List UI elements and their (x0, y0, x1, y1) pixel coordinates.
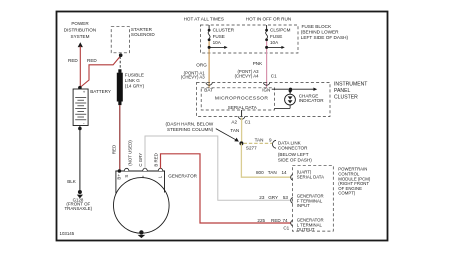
svg-text:INDICATOR: INDICATOR (299, 98, 325, 103)
svg-text:10A: 10A (213, 40, 222, 45)
lamp charge indicator (285, 94, 296, 105)
svg-text:(DASH HARN, BELOW: (DASH HARN, BELOW (166, 122, 214, 127)
fuse block dashed box (200, 25, 298, 53)
battery (78, 86, 82, 90)
svg-text:C1: C1 (283, 226, 289, 231)
svg-text:BATTERY: BATTERY (90, 89, 111, 94)
svg-text:COMPT): COMPT) (338, 191, 356, 196)
generator (114, 168, 170, 233)
svg-text:14: 14 (281, 170, 287, 175)
wire ORG fuse to cluster (208, 53, 210, 88)
PCM connectors (291, 174, 293, 180)
svg-text:LINK G: LINK G (125, 78, 140, 83)
svg-text:PNK: PNK (253, 61, 263, 66)
svg-text:CLUSTER: CLUSTER (213, 28, 235, 33)
wire RED fusible link to generator B+ (119, 105, 121, 171)
svg-text:C GRY: C GRY (138, 153, 143, 167)
svg-text:OUTPUT: OUTPUT (297, 227, 315, 232)
svg-text:FUSE: FUSE (213, 34, 225, 39)
svg-text:(CHEVY) A4: (CHEVY) A4 (235, 74, 259, 79)
serial data wire to A2 connector (241, 110, 243, 117)
svg-text:+: + (83, 90, 86, 95)
PCM dashed box (292, 166, 333, 231)
svg-text:(BELOW LEFT: (BELOW LEFT (278, 152, 309, 157)
svg-text:TAN: TAN (230, 128, 239, 133)
wire GRY generator F to PCM (145, 136, 291, 200)
junction B+ (118, 169, 122, 173)
starter solenoid dashed box (111, 27, 129, 53)
wire RED from power distribution to battery (79, 46, 81, 87)
ground at generator (139, 230, 143, 234)
connector data link (272, 140, 276, 148)
svg-text:RED: RED (68, 58, 78, 63)
svg-text:800: 800 (256, 170, 264, 175)
svg-text:DATA LINK: DATA LINK (278, 140, 302, 145)
svg-text:TAN: TAN (255, 137, 264, 142)
wire BLK battery to ground (79, 126, 81, 193)
leader arrow to S277 (216, 129, 237, 141)
svg-text:PANEL: PANEL (334, 88, 350, 94)
dashed wire solenoid to fusible link (119, 57, 121, 70)
connector at cluster (IGN) (263, 82, 269, 85)
svg-text:23: 23 (259, 195, 265, 200)
svg-text:S277: S277 (246, 146, 257, 151)
wire TAN S277 to PCM (241, 143, 290, 177)
dashed wire TAN 9 to data link connector (244, 142, 272, 144)
svg-text:CLS/PCM: CLS/PCM (270, 28, 291, 33)
wire RED generator L to PCM (161, 154, 291, 223)
svg-text:C1: C1 (245, 120, 251, 125)
svg-text:53: 53 (283, 195, 289, 200)
svg-text:B+: B+ (116, 174, 121, 180)
svg-text:9: 9 (269, 137, 272, 142)
svg-text:GENERATOR: GENERATOR (168, 174, 197, 179)
svg-text:CLUSTER: CLUSTER (334, 94, 358, 100)
fuse CLUSTER 10A (208, 25, 228, 53)
svg-text:SERIAL DATA: SERIAL DATA (297, 174, 324, 179)
svg-text:SOLENOID: SOLENOID (131, 32, 155, 37)
svg-text:STEERING COLUMN): STEERING COLUMN) (167, 127, 214, 132)
svg-text:BLK: BLK (67, 179, 77, 184)
lug F (143, 168, 148, 171)
svg-text:FUSE: FUSE (270, 34, 282, 39)
svg-text:A2: A2 (231, 120, 237, 125)
svg-text:LEFT SIDE OF DASH): LEFT SIDE OF DASH) (301, 35, 349, 40)
svg-text:SERIAL DATA: SERIAL DATA (228, 105, 258, 110)
svg-text:RED: RED (87, 58, 97, 63)
svg-text:10A: 10A (270, 40, 279, 45)
svg-text:B RED: B RED (154, 153, 159, 166)
wire RED battery to starter solenoid (80, 56, 121, 88)
svg-text:HOT IN OFF OR RUN: HOT IN OFF OR RUN (246, 17, 291, 22)
svg-text:GRY: GRY (268, 195, 278, 200)
svg-text:(NOT USED): (NOT USED) (128, 140, 133, 166)
svg-text:SIDE OF DASH): SIDE OF DASH) (278, 157, 312, 162)
svg-text:(BEHIND LOWER: (BEHIND LOWER (301, 30, 339, 35)
splice S277 (239, 141, 243, 145)
microprocessor U1 dashed box (201, 88, 274, 110)
lug L (158, 168, 163, 171)
svg-text:POWER: POWER (71, 21, 89, 26)
svg-text:225: 225 (257, 218, 265, 223)
svg-text:DISTRIBUTION: DISTRIBUTION (64, 28, 96, 33)
wire PNK fuse to cluster (266, 53, 268, 88)
node POWER DISTRIBUTION SYSTEM (64, 21, 96, 47)
svg-text:HOT AT ALL TIMES: HOT AT ALL TIMES (184, 17, 224, 22)
svg-text:INPUT: INPUT (297, 203, 310, 208)
svg-text:IGN: IGN (262, 88, 270, 93)
svg-text:BAT: BAT (204, 88, 213, 93)
svg-text:(CHEVY) A3: (CHEVY) A3 (181, 75, 205, 80)
svg-text:CONNECTOR: CONNECTOR (278, 146, 308, 151)
junction at solenoid (119, 53, 123, 57)
svg-text:C1: C1 (271, 74, 277, 79)
svg-text:MICROPROCESSOR: MICROPROCESSOR (215, 95, 268, 101)
instrument panel cluster dashed box (197, 83, 331, 117)
charge indicator circuit (272, 88, 315, 90)
svg-text:103145: 103145 (60, 231, 75, 236)
svg-text:TRANSAXLE): TRANSAXLE) (65, 206, 93, 211)
svg-text:FUSE BLOCK: FUSE BLOCK (302, 24, 333, 29)
svg-text:RED: RED (112, 145, 117, 154)
fusible link G (117, 69, 123, 105)
svg-text:TAN: TAN (268, 170, 277, 175)
svg-text:ORG: ORG (196, 62, 207, 67)
svg-text:74: 74 (282, 218, 288, 223)
lug S (124, 168, 129, 171)
wire TAN down to S277 (241, 118, 243, 144)
svg-text:F: F (141, 175, 146, 178)
border frame (57, 12, 388, 241)
svg-text:RED: RED (271, 218, 281, 223)
ground G128 (78, 190, 82, 194)
svg-text:INSTRUMENT: INSTRUMENT (334, 82, 367, 88)
svg-text:SYSTEM: SYSTEM (71, 34, 90, 39)
fuse CLS/PCM 10A (265, 25, 285, 53)
svg-text:(14 GRY): (14 GRY) (125, 83, 145, 88)
connector at cluster (BAT) (206, 82, 212, 85)
svg-text:S: S (124, 175, 129, 178)
